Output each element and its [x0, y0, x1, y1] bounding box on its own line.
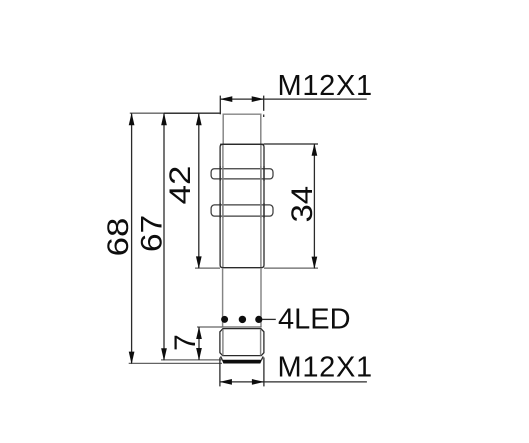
svg-text:M12X1: M12X1	[278, 351, 373, 383]
svg-text:67: 67	[134, 215, 168, 252]
svg-text:M12X1: M12X1	[278, 70, 373, 102]
svg-text:4LED: 4LED	[278, 304, 351, 336]
svg-text:68: 68	[101, 218, 134, 257]
svg-text:7: 7	[169, 334, 202, 351]
svg-text:34: 34	[284, 186, 318, 223]
svg-text:42: 42	[163, 166, 196, 205]
